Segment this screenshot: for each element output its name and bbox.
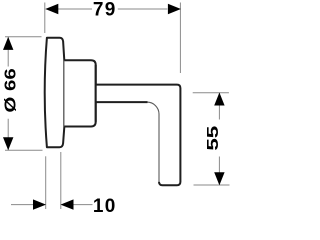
dim 55: top extension line — [193, 92, 229, 94]
dim 79: dimension line — [46, 8, 168, 10]
dim 55: top arrow — [214, 93, 224, 106]
svg-text:79: 79 — [93, 0, 117, 21]
dim 79: left arrow — [45, 4, 58, 14]
svg-text:55: 55 — [204, 126, 222, 151]
dim 55: dimension line — [218, 93, 220, 185]
dim 55: bottom extension line — [194, 184, 230, 186]
dim 10: left arrow (pointing right) — [33, 199, 46, 209]
dim 79: right arrow — [168, 4, 181, 14]
svg-text:10: 10 — [93, 196, 117, 217]
dim Ø66: dimension line — [7, 37, 9, 149]
dim Ø66: bottom extension line — [5, 149, 43, 151]
dim 10: dimension line — [11, 204, 93, 206]
dim 79: right extension line — [179, 3, 181, 74]
dim Ø66: top arrow — [3, 37, 13, 50]
dim 10: left extension line — [45, 156, 47, 209]
dim Ø66: top extension line — [5, 36, 42, 38]
lever arm bottom edge — [96, 101, 148, 103]
escutcheon (valve rosette, side view) — [45, 38, 65, 148]
lever handle — [96, 85, 181, 186]
dim 10: right arrow (pointing left) — [61, 199, 74, 209]
lever inner edge (grip left + bend arc) — [147, 102, 159, 182]
dim Ø66: bottom arrow — [3, 137, 13, 150]
hub (cartridge sleeve) — [64, 60, 95, 126]
lever outer contour — [96, 85, 181, 186]
hub right edge (continuous through arm junction) — [95, 65, 97, 122]
dim 79: left extension line — [44, 3, 46, 34]
dim 55: bottom arrow — [214, 172, 224, 185]
dim 10: right extension line — [60, 152, 62, 209]
svg-text:Ø 66: Ø 66 — [2, 68, 19, 112]
